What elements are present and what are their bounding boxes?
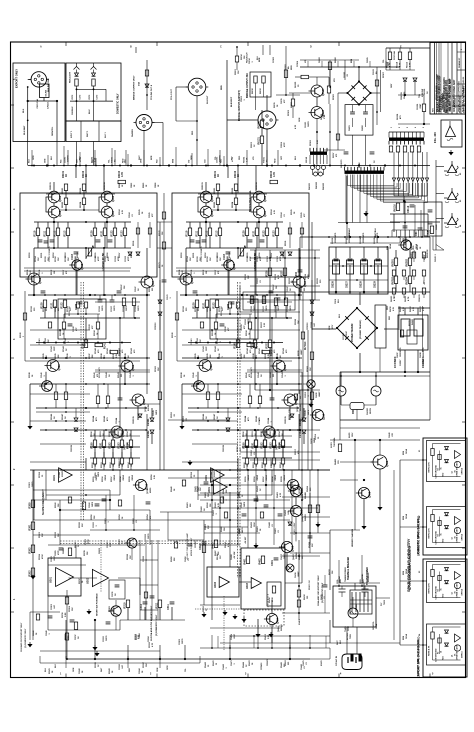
channel B wire inner drop2b — [209, 236, 211, 249]
wire J6104 pin3 drop — [316, 155, 318, 164]
transformer winding 3 — [363, 592, 365, 612]
J6103 pin9 up — [419, 132, 421, 138]
svg-text:R402: R402 — [258, 558, 261, 565]
channel B wire inner drop6b — [266, 236, 268, 249]
svg-text:C6100: C6100 — [273, 56, 275, 63]
svg-text:2.2K: 2.2K — [246, 157, 248, 162]
svg-text:R6014: R6014 — [240, 53, 243, 60]
ribbon trunk v2 — [346, 223, 348, 240]
svg-text:R0401: R0401 — [204, 491, 207, 498]
bottom drop c — [159, 656, 161, 668]
svg-text:4.7K: 4.7K — [227, 542, 230, 547]
junction dot 256-318 — [255, 317, 257, 319]
wire r6121 down — [261, 144, 263, 166]
svg-text:R0352: R0352 — [119, 514, 121, 520]
channel B wire inner h3 — [176, 267, 283, 269]
svg-text:R0156: R0156 — [254, 476, 256, 482]
svg-text:MERIDIAN, MISSISSIPPI 39301: MERIDIAN, MISSISSIPPI 39301 — [443, 77, 446, 112]
channel A node h3a — [33, 294, 35, 296]
svg-text:R0126: R0126 — [285, 241, 287, 246]
channel A stub x115 — [114, 150, 116, 166]
svg-text:CR101: CR101 — [147, 418, 150, 426]
svg-text:R6402: R6402 — [334, 458, 337, 465]
transistor Q6102 — [311, 107, 323, 119]
wire r6105 dn — [328, 93, 330, 104]
J6103 pin7 up — [411, 132, 413, 138]
channel A wire mid v — [85, 248, 87, 259]
wire fan bus — [394, 195, 427, 197]
svg-text:R0116: R0116 — [207, 255, 209, 262]
svg-text:C0117: C0117 — [215, 270, 217, 275]
bl v 76 — [75, 545, 77, 558]
wire transf bottom — [359, 353, 361, 372]
channel A resistor R130 — [43, 300, 46, 308]
svg-text:Q403: Q403 — [292, 545, 295, 552]
channel A dot h3 x105 — [104, 294, 106, 296]
mid bus v3 — [429, 292, 431, 372]
wire q2 dn — [316, 119, 318, 133]
resistor R0334 — [68, 548, 71, 556]
channel B resistor R152 — [263, 440, 266, 448]
resistor R231 — [283, 268, 286, 276]
rail junction x385 — [384, 164, 386, 166]
J6103 pin8 up — [415, 132, 417, 138]
svg-text:THERMAL BREAKER: THERMAL BREAKER — [347, 556, 350, 580]
svg-text:CR0406: CR0406 — [260, 662, 263, 670]
channel B capacitor C144 — [270, 397, 275, 399]
svg-text:CR0105: CR0105 — [133, 416, 135, 424]
export jack 2 jack symbol — [455, 634, 461, 642]
svg-text:TITLE: TITLE — [450, 105, 452, 112]
wire lamp feed — [340, 372, 342, 386]
svg-text:R0142: R0142 — [245, 372, 248, 378]
svg-text:R0317: R0317 — [79, 578, 81, 584]
title inner hline b — [457, 83, 466, 85]
svg-text:R0115: R0115 — [247, 253, 249, 258]
wire jack feed 2 — [436, 193, 444, 195]
svg-text:47PF: 47PF — [283, 141, 286, 147]
channel B wire long v1 — [185, 273, 187, 295]
svg-text:DS6102: DS6102 — [316, 182, 318, 189]
svg-text:PA/BRG: PA/BRG — [131, 129, 134, 137]
svg-text:Q0111: Q0111 — [124, 445, 126, 450]
svg-text:R151: R151 — [99, 442, 102, 449]
channel B wire gnd drop — [181, 384, 183, 424]
junction dot 104-295 — [103, 294, 105, 296]
mid band h 286 — [250, 285, 320, 287]
svg-text:R0146: R0146 — [202, 413, 205, 420]
svg-text:R0102: R0102 — [214, 201, 216, 208]
svg-text:C0136: C0136 — [65, 337, 67, 344]
svg-text:R120: R120 — [90, 230, 93, 237]
wire caps top a — [404, 308, 406, 315]
lb gnd wire — [94, 620, 96, 645]
svg-text:Q1: Q1 — [452, 471, 454, 473]
svg-text:U403: U403 — [246, 582, 249, 589]
capacitor C6237 body — [401, 319, 410, 336]
channel A wire inner drop3 — [67, 222, 69, 228]
wire bridge right — [371, 92, 381, 94]
svg-text:C103: C103 — [223, 253, 226, 260]
cb wire h4 — [239, 581, 251, 583]
cap bank wire 1a — [335, 247, 337, 258]
svg-text:.1: .1 — [108, 521, 110, 523]
channel B node h5b — [276, 357, 278, 359]
svg-text:1MFD: 1MFD — [98, 471, 100, 477]
channel B resistor R151 — [254, 440, 257, 448]
svg-text:120 AC IN: 120 AC IN — [335, 655, 338, 666]
channel B resistor R146 — [206, 392, 209, 400]
channel A wire h 330 — [30, 329, 90, 331]
svg-text:R300: R300 — [28, 502, 31, 509]
wire u106 v — [105, 89, 107, 101]
rail stub dot 1 — [47, 165, 49, 167]
junction dot 302-500 — [301, 499, 303, 501]
top zone tick 2 — [156, 42, 158, 46]
output band stub2 265 — [264, 446, 266, 452]
channel A capacitor C144 — [118, 397, 123, 399]
upper fan h70 — [386, 69, 415, 71]
svg-text:R0444: R0444 — [242, 661, 245, 668]
svg-text:C0136: C0136 — [219, 353, 221, 359]
ribbon wire 3 up — [399, 183, 401, 189]
export jack 1 cell outline — [427, 562, 466, 603]
svg-text:C0151: C0151 — [100, 431, 102, 437]
uc wire — [363, 510, 365, 524]
svg-text:R0117: R0117 — [119, 253, 121, 258]
svg-text:C0133: C0133 — [241, 324, 243, 330]
svg-text:RED: RED — [129, 667, 131, 672]
channel B diode CR106 — [226, 418, 230, 421]
bl extra h — [32, 576, 34, 641]
channel B resistor R140 — [236, 340, 239, 348]
svg-text:1MFD: 1MFD — [114, 305, 116, 311]
wire unit2 b — [93, 70, 95, 74]
junction dot 86-248 — [85, 247, 87, 249]
wire p6002 exit2 — [196, 140, 198, 166]
svg-text:R0102: R0102 — [62, 201, 64, 208]
svg-text:GRN: GRN — [44, 158, 46, 163]
channel A dot h6 x66 — [65, 383, 67, 385]
channel A resistor R111 — [46, 228, 49, 236]
svg-text:R122: R122 — [110, 230, 113, 237]
svg-text:R6120: R6120 — [257, 121, 260, 129]
svg-text:R121: R121 — [252, 230, 255, 237]
wire caps bottom b — [417, 350, 419, 372]
channel B wire long v2 — [298, 288, 300, 295]
mid-top stub b — [344, 60, 346, 80]
channel A transistor Q101 — [48, 191, 60, 203]
svg-text:R0137: R0137 — [241, 353, 243, 359]
left zone tick 6 — [11, 421, 15, 423]
rail drop x128 — [127, 645, 129, 659]
channel A wire r101 drop — [53, 182, 55, 191]
rail stub b4 — [95, 158, 97, 166]
svg-text:CR101: CR101 — [299, 418, 302, 426]
channel B node h1a — [205, 221, 207, 223]
resistor pack RN6105 — [417, 146, 420, 152]
svg-text:THERMAL: THERMAL — [361, 573, 364, 583]
svg-text:CR6103: CR6103 — [401, 92, 403, 100]
svg-text:R6220: R6220 — [298, 350, 300, 356]
svg-text:Q0112: Q0112 — [147, 488, 149, 494]
svg-text:4.7K: 4.7K — [392, 306, 395, 311]
svg-text:C320 10A: C320 10A — [36, 99, 39, 109]
svg-text:4.7K: 4.7K — [402, 306, 405, 311]
svg-text:RED: RED — [387, 305, 389, 310]
channel A dot h6 x125 — [124, 383, 126, 385]
svg-text:VIO: VIO — [188, 159, 190, 163]
svg-text:4.7K: 4.7K — [273, 209, 276, 214]
b2 dot 272 — [271, 647, 273, 649]
svg-text:1MFD: 1MFD — [156, 409, 158, 415]
J6103 pin4 up — [400, 132, 402, 138]
svg-text:22K: 22K — [82, 523, 84, 527]
svg-text:ORN: ORN — [157, 667, 159, 672]
thermal h2 — [340, 582, 380, 584]
chB ext wire h0 — [250, 249, 320, 251]
rail stub dot 7 — [143, 165, 145, 167]
channel A wire h3 — [28, 294, 150, 296]
svg-text:SCALE FILE 71-490-06 SHT 1: SCALE FILE 71-490-06 SHT 1 — [462, 83, 465, 112]
svg-text:COM GROUND: COM GROUND — [436, 531, 438, 545]
svg-text:C0123: C0123 — [125, 255, 127, 262]
svg-text:R0158: R0158 — [39, 471, 41, 478]
upper fan link — [385, 48, 387, 70]
node 372b — [404, 371, 406, 373]
ll dot b — [109, 499, 111, 501]
mid band dot 285 — [284, 257, 286, 259]
channel A wire h7 — [36, 407, 145, 409]
rail dot2 x400 — [399, 165, 401, 167]
channel A stub c144 — [119, 384, 121, 398]
svg-text:4.7K: 4.7K — [407, 296, 410, 301]
svg-text:R302: R302 — [28, 547, 31, 554]
svg-text:Q0111: Q0111 — [276, 445, 278, 450]
channel A wire q108 down — [45, 372, 47, 384]
channel B resistor R130 — [195, 300, 198, 308]
resistor R6107 — [375, 80, 378, 86]
channel B dot h3 x115 — [266, 294, 268, 296]
svg-text:R6107: R6107 — [383, 71, 385, 78]
svg-text:220: 220 — [304, 288, 306, 291]
pin triangle 6 — [416, 178, 419, 182]
svg-text:C0150: C0150 — [91, 431, 93, 437]
svg-text:SLOPE FREQUENCY: SLOPE FREQUENCY — [41, 489, 45, 515]
node chain — [146, 94, 148, 96]
right zone tick 5 — [462, 357, 466, 359]
junction dot 212-500 — [211, 499, 213, 501]
channel A wire inner drop7 — [124, 222, 126, 228]
svg-text:DS6201: DS6201 — [367, 407, 369, 415]
capacitor C6121 — [428, 221, 433, 223]
channel B capacitor C108 — [262, 299, 267, 301]
channel B diode CR105 — [290, 414, 294, 417]
channel B wire base link — [212, 209, 251, 211]
channel A resistor R140 — [84, 340, 87, 348]
channel B capacitor C103 — [226, 251, 231, 253]
wire jack feed 4 — [436, 245, 444, 251]
J6103 pin3 up — [396, 132, 398, 138]
channel A wire h 421 — [30, 420, 86, 422]
upper fan stub2 1 — [399, 60, 401, 71]
svg-text:R152: R152 — [108, 442, 111, 449]
capacitor C6120 — [428, 209, 433, 211]
channel B wire r149 dn — [285, 306, 287, 319]
rail stub b10 — [191, 153, 193, 166]
rail node x230 — [229, 658, 231, 660]
channel B stub r146 — [207, 384, 209, 392]
lb v1 — [127, 608, 129, 621]
wire p6002 left — [176, 86, 188, 88]
resistor R6204 — [408, 276, 411, 284]
svg-text:D: D — [310, 46, 312, 49]
svg-text:R0133: R0133 — [60, 330, 62, 336]
svg-text:BLU: BLU — [339, 313, 341, 318]
svg-text:LAMP: LAMP — [318, 391, 321, 397]
domestic jack 2 wire ra2 — [432, 522, 434, 543]
wire r6105 up — [328, 77, 330, 86]
channel B wire r col b — [235, 191, 237, 199]
channel B wire v mid2 — [237, 318, 239, 340]
svg-text:470: 470 — [96, 374, 99, 377]
channel B resistor R149 — [284, 298, 287, 306]
svg-text:C0331: C0331 — [103, 635, 105, 642]
ribbon wire 1 h — [348, 185, 395, 187]
junction dot 238-248 — [237, 247, 239, 249]
resistor R233 — [268, 340, 271, 348]
frame stub a — [262, 45, 264, 55]
svg-text:R0340: R0340 — [32, 630, 35, 636]
wire box dn a — [352, 135, 354, 150]
channel A capacitor C103 — [74, 251, 79, 253]
svg-text:Q102: Q102 — [59, 210, 62, 217]
rail dot2 x86 — [85, 165, 87, 167]
svg-text:RED: RED — [389, 315, 391, 320]
wire p6002 down — [196, 96, 198, 121]
svg-text:R0114: R0114 — [34, 255, 37, 262]
svg-text:B: B — [130, 46, 132, 49]
channel B wire q108 down — [197, 372, 199, 384]
svg-text:Q101: Q101 — [211, 195, 214, 202]
channel B wire h7 — [188, 407, 297, 409]
channel A wire h 436 — [90, 435, 140, 437]
channel B wire cr103 — [311, 280, 313, 300]
svg-text:C103: C103 — [71, 253, 74, 260]
svg-text:R0140: R0140 — [246, 347, 249, 354]
channel B resistor R103b — [270, 180, 278, 183]
channel B transistor Q110 — [284, 394, 296, 406]
channel B wire x160 seg2 — [311, 400, 313, 431]
svg-text:(POWER TRANSF): (POWER TRANSF) — [359, 320, 362, 339]
channel B diode CR101 — [302, 418, 306, 421]
channel B wire inner drop5 — [256, 222, 258, 228]
svg-text:.33/5W: .33/5W — [275, 475, 277, 481]
svg-text:R0302: R0302 — [39, 531, 41, 538]
svg-text:C07A: C07A — [334, 299, 337, 304]
svg-text:N/O: N/O — [443, 472, 445, 476]
left zone tick 3 — [11, 231, 15, 233]
wire fan h2 — [390, 221, 440, 223]
svg-text:+75V: +75V — [232, 156, 234, 162]
lb wire h2 — [48, 544, 145, 546]
svg-text:R0113: R0113 — [217, 253, 219, 258]
svg-text:SLK 1: SLK 1 — [105, 131, 107, 138]
rail dot2 x54 — [53, 165, 55, 167]
channel B diode CR102 — [302, 430, 306, 433]
svg-text:C0323: C0323 — [145, 533, 147, 540]
channel B wire r148 dn — [275, 306, 277, 319]
strip divider 1 — [80, 121, 82, 142]
junction dot 206-222 — [205, 221, 207, 223]
svg-text:BRIDGE OUTPUT 30A: BRIDGE OUTPUT 30A — [246, 73, 249, 98]
ground crowbar2 — [379, 505, 381, 507]
svg-text:C0256: C0256 — [251, 449, 253, 456]
svg-text:BRIDGE OUTPUT ONLY: BRIDGE OUTPUT ONLY — [134, 75, 136, 100]
svg-text:C6014: C6014 — [248, 57, 251, 64]
domestic jack 1 wire top — [433, 443, 461, 445]
svg-text:R0160: R0160 — [155, 365, 157, 372]
node 372a — [359, 371, 361, 373]
resistor R6005 — [284, 70, 287, 78]
channel B bus x76 — [227, 258, 229, 295]
svg-text:C0132: C0132 — [73, 326, 75, 332]
cap bank wire 2a — [349, 247, 351, 258]
svg-text:4.7K: 4.7K — [398, 62, 401, 67]
rail stub b12 — [223, 156, 225, 166]
channel A wire inner drop7b — [124, 236, 126, 249]
svg-text:10000MFD: 10000MFD — [423, 347, 425, 357]
svg-text:C0344: C0344 — [138, 667, 141, 674]
svg-text:25MFD: 25MFD — [214, 470, 216, 477]
svg-text:C6415: C6415 — [320, 594, 323, 600]
channel B node h5a — [197, 357, 199, 359]
channel B resistor R153 — [272, 440, 275, 448]
title block divider 1 — [434, 43, 436, 115]
svg-text:C403: C403 — [199, 543, 202, 550]
crowbar v extra2 — [283, 470, 285, 548]
svg-text:CR0473: CR0473 — [266, 659, 269, 666]
channel B resistor R111 — [198, 228, 201, 236]
cap bank wire 4a — [377, 247, 379, 258]
svg-text:C0329: C0329 — [143, 555, 145, 562]
channel A wire out drop2 — [112, 430, 114, 440]
channel A node h3b — [89, 294, 91, 296]
svg-text:F0101: F0101 — [111, 156, 113, 163]
svg-text:CR0106: CR0106 — [71, 445, 73, 452]
domestic jack 2 jack symbol — [455, 517, 461, 525]
channel B wire out drop0 — [246, 430, 248, 440]
channel A transistor Q110 — [132, 394, 144, 406]
chB ext v f — [284, 268, 286, 300]
box A exit a — [27, 142, 29, 166]
svg-text:R0324: R0324 — [38, 553, 41, 560]
svg-text:R0328: R0328 — [127, 553, 129, 560]
svg-text:R110: R110 — [33, 230, 36, 236]
resistor pack RN6103 — [403, 146, 406, 152]
wire r6104 lead — [309, 76, 317, 78]
channel B wire out drop1b — [255, 448, 257, 459]
resistor R402 — [261, 556, 264, 564]
ribbon down 4 — [366, 175, 368, 223]
channel B bus x147b — [298, 414, 300, 470]
channel B dot h5 x46 — [197, 357, 199, 359]
svg-text:C0129: C0129 — [305, 410, 307, 416]
wire input h — [289, 92, 311, 94]
b2 drop 272 — [271, 635, 273, 648]
svg-text:R0322: R0322 — [55, 531, 57, 538]
channel A wire base bus2 — [98, 197, 100, 212]
